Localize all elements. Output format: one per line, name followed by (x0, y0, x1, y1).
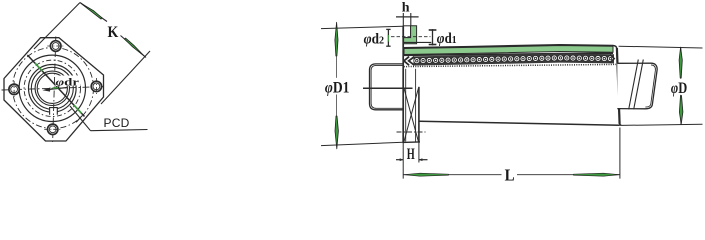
body circle inner (31, 67, 73, 109)
svg-text:L: L (505, 165, 515, 184)
flange top tab white part (404, 26, 411, 38)
strip bottom dark line (404, 53, 613, 55)
svg-text:H: H (407, 146, 415, 163)
bolt hole top (47, 41, 64, 52)
ball row (414, 55, 614, 64)
body bottom edge (419, 121, 619, 125)
horizontal centerline (2, 87, 105, 90)
phi-D1 text (322, 78, 353, 97)
flange bottom edge (402, 141, 420, 144)
phi-d1 dimension bar (429, 29, 437, 45)
body circle outer (28, 64, 76, 112)
phi-D arrow top (679, 47, 682, 78)
phi-D top extension line (619, 46, 703, 48)
shaft left end (369, 64, 403, 110)
K extension line upper-left (34, 2, 80, 49)
shaft break line 1 (629, 60, 639, 110)
flange left face (402, 26, 404, 143)
bolt hole right (91, 78, 101, 95)
phi-D1 arrow top (335, 22, 338, 56)
dashed groove centerline (391, 36, 431, 38)
body outline top edge (403, 45, 621, 126)
phi-D1 dimension line (335, 30, 337, 141)
bolt hole bottom (44, 124, 61, 134)
flange octagon outline (4, 38, 104, 141)
h dimension (396, 1, 419, 26)
vertical centerline (53, 36, 56, 143)
K dimension line lower segment (121, 35, 147, 57)
svg-text:φd1: φd1 (437, 31, 457, 47)
phi-dr label with leader arrow (43, 75, 81, 91)
bore circle inner (37, 73, 67, 103)
svg-text:φD1: φD1 (325, 79, 350, 96)
L dimension (403, 128, 620, 185)
svg-text:h: h (402, 1, 410, 16)
bolt hole centerline in section (396, 131, 425, 133)
left seal chevrons (404, 57, 414, 66)
K extension line lower-right (101, 51, 150, 104)
flange boss circle D1 (19, 55, 85, 121)
dashed circle inside boss (24, 60, 80, 116)
phi-D arrow bottom (679, 96, 683, 125)
svg-text:φdr: φdr (56, 76, 80, 88)
shaft right end (617, 63, 657, 109)
ball track dark band (414, 54, 615, 66)
phi-D1 top extension line (321, 26, 403, 28)
K arrow upper (81, 3, 102, 19)
flange section inner hole walls (405, 69, 407, 142)
retainer green strip (404, 46, 613, 55)
green tick lower-right on diagonal (74, 105, 82, 113)
dotted line under ball row (404, 64, 616, 66)
flange section right face (418, 87, 420, 143)
green tick upper-left on diagonal (35, 63, 43, 71)
flange top tab green part (404, 26, 417, 44)
horizontal line at flange mid (363, 87, 413, 89)
svg-text:PCD: PCD (103, 116, 129, 130)
right seal chevron (610, 54, 614, 62)
body right face thick (617, 48, 620, 124)
phi-D1 arrow bottom (335, 116, 338, 149)
d1 extension line (404, 41, 431, 43)
K arrow lower (125, 38, 145, 57)
phi-D dimension line (680, 48, 682, 125)
phi-D bottom extension line (621, 124, 702, 125)
K dimension line upper segment (80, 2, 107, 21)
shaft break line 2 (634, 60, 644, 110)
bore dimension diagonal line (27, 55, 84, 117)
phi-D text (668, 79, 690, 97)
svg-text:φd2: φd2 (364, 32, 385, 48)
svg-text:φD: φD (671, 80, 687, 97)
PCD leader line (70, 106, 148, 131)
bore notch at 6 o'clock (50, 108, 58, 115)
PCD bolt circle (dash-dot) (12, 47, 93, 128)
phi-D1 bottom extension line (321, 142, 403, 145)
phi-d2 dimension bar (386, 29, 390, 46)
flange section X diagonals (404, 88, 418, 141)
svg-text:K: K (108, 24, 119, 41)
bolt hole left (9, 81, 19, 98)
H dimension (396, 142, 428, 178)
bore circle outer (35, 71, 69, 105)
